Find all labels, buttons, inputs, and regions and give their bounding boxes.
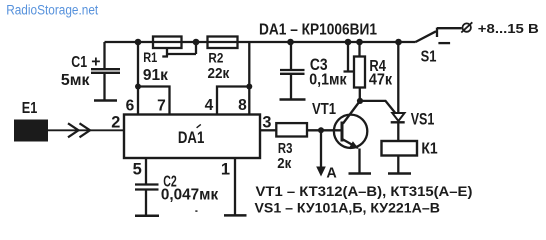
wire pin 6 to pin 7 bbox=[138, 87, 170, 115]
wire node A down bbox=[320, 130, 322, 167]
svg-text:6: 6 bbox=[126, 97, 135, 114]
VT1 base bar bbox=[341, 122, 344, 142]
wire pin 8 to pin 4 bbox=[217, 87, 249, 115]
wire S1 to terminal bbox=[437, 27, 462, 29]
wire K1 to ground bbox=[397, 156, 399, 173]
transistor VT1 bbox=[334, 115, 367, 148]
IC DA1 box bbox=[124, 115, 260, 159]
wire pin 3 bbox=[260, 129, 276, 131]
svg-text:VT1: VT1 bbox=[312, 101, 336, 118]
node dot rail/pin6 bbox=[135, 39, 142, 46]
wire rail to pin 8 bbox=[248, 42, 250, 115]
ground (pin 1) bbox=[224, 214, 247, 217]
node dot C3 rail bbox=[287, 39, 294, 46]
ground (C1) bbox=[94, 99, 117, 102]
svg-text:C1: C1 bbox=[71, 54, 87, 71]
relay K1 bbox=[382, 141, 418, 156]
node dot pins 6-7 bbox=[135, 84, 141, 90]
switch S1 open contact bbox=[438, 42, 450, 44]
svg-text:2: 2 bbox=[111, 113, 120, 131]
svg-text:A: A bbox=[326, 166, 337, 182]
svg-text:DA1: DA1 bbox=[178, 129, 204, 147]
wire gate to VS1 bbox=[360, 101, 395, 113]
capacitor C1 bbox=[91, 42, 120, 100]
resistor R4 bbox=[358, 42, 360, 57]
node dot VS1 rail bbox=[395, 39, 402, 46]
arrow node A bbox=[316, 167, 326, 177]
svg-text:47к: 47к bbox=[369, 72, 393, 89]
VT1 emitter arrow bbox=[349, 141, 358, 148]
terminal circle bbox=[463, 23, 471, 31]
node dot R1/R2 bbox=[193, 39, 200, 46]
svg-text:0,047мк: 0,047мк bbox=[161, 187, 218, 204]
node dot pins 4-8 bbox=[246, 84, 252, 90]
wire pin 1 to ground bbox=[234, 158, 236, 215]
svg-text:4: 4 bbox=[205, 97, 214, 114]
svg-text:R2: R2 bbox=[208, 49, 223, 65]
thyristor VS1 cathode lead bbox=[397, 122, 399, 141]
node dot R4 rail bbox=[356, 39, 363, 46]
wire rail to pin 6 bbox=[137, 42, 139, 115]
wire: +V top rail bbox=[105, 41, 416, 43]
terminal slash bbox=[461, 22, 472, 32]
svg-text:RadioStorage.net: RadioStorage.net bbox=[6, 3, 98, 18]
wire R3 to base bbox=[307, 129, 342, 131]
svg-text:1: 1 bbox=[221, 161, 230, 179]
svg-text:VS1: VS1 bbox=[411, 110, 435, 129]
svg-text:К1: К1 bbox=[421, 140, 437, 157]
wire E1 to pin 2 bbox=[48, 129, 124, 131]
switch S1 contact tick bbox=[436, 28, 438, 37]
svg-text:22к: 22к bbox=[208, 65, 230, 82]
ground (K1) bbox=[388, 172, 411, 175]
chevron arrows on mic wire bbox=[68, 123, 90, 137]
scan speck bbox=[195, 210, 197, 212]
scan scratch above DA1 bbox=[197, 124, 201, 127]
ground (C3) bbox=[280, 98, 306, 101]
ground (VT1 emitter) bbox=[349, 172, 372, 175]
resistor R2 bbox=[208, 37, 238, 49]
svg-text:S1: S1 bbox=[421, 48, 437, 65]
svg-text:8: 8 bbox=[238, 97, 247, 114]
resistor R3 bbox=[276, 123, 307, 136]
thyristor VS1 triangle bbox=[392, 113, 404, 121]
svg-text:0,1мк: 0,1мк bbox=[309, 72, 347, 89]
switch S1 blade bbox=[416, 31, 437, 42]
svg-text:7: 7 bbox=[157, 97, 166, 114]
resistor R1 (trimmer) bbox=[153, 37, 182, 49]
wire R1 wiper tap bbox=[162, 42, 196, 57]
VT1 emitter bbox=[343, 140, 360, 173]
node dot collector/gate bbox=[357, 98, 363, 104]
svg-text:E1: E1 bbox=[22, 100, 38, 117]
svg-text:+: + bbox=[91, 53, 100, 70]
svg-text:91к: 91к bbox=[143, 67, 168, 84]
svg-text:VT1 – КТ312(А–В), КТ315(А–Е): VT1 – КТ312(А–В), КТ315(А–Е) bbox=[256, 183, 473, 199]
VT1 collector bbox=[343, 101, 360, 124]
node dot A bbox=[318, 127, 324, 133]
svg-text:R1: R1 bbox=[143, 49, 157, 65]
ground (C2) bbox=[135, 215, 159, 218]
svg-text:2к: 2к bbox=[277, 155, 291, 172]
svg-text:DA1 – КР1006ВИ1: DA1 – КР1006ВИ1 bbox=[259, 22, 377, 39]
wire stub with end bar bbox=[344, 42, 354, 72]
node dot stub bbox=[345, 39, 352, 46]
capacitor C2 bbox=[135, 185, 159, 216]
svg-text:3: 3 bbox=[262, 113, 271, 131]
svg-text:5мк: 5мк bbox=[61, 72, 90, 89]
thyristor VS1 anode bbox=[397, 42, 399, 113]
svg-text:+8...15 В: +8...15 В bbox=[478, 22, 539, 36]
svg-text:5: 5 bbox=[133, 161, 142, 179]
thyristor VS1 cathode bar bbox=[391, 121, 405, 123]
svg-text:VS1 – КУ101А,Б, КУ221А–В: VS1 – КУ101А,Б, КУ221А–В bbox=[255, 200, 440, 216]
microphone E1 bbox=[14, 120, 48, 142]
capacitor C3 bbox=[280, 42, 305, 99]
wire pin 5 bbox=[145, 158, 147, 184]
